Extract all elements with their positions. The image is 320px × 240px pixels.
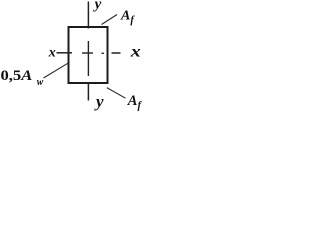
x axis centerline dash inside section [82, 52, 93, 54]
y axis centerline dash inside section [87, 41, 89, 76]
leader line to bottom flange label Af [107, 88, 126, 99]
x axis centerline dot [102, 52, 105, 54]
svg-text:0,5A: 0,5A [1, 68, 33, 84]
leader line to top flange label Af [102, 15, 118, 25]
x axis right segment [112, 52, 121, 54]
leader line to web label 0,5Aw [44, 63, 69, 78]
rectangle section outline [69, 27, 108, 83]
svg-text:w: w [37, 77, 44, 88]
svg-text:x: x [130, 43, 141, 60]
svg-text:x: x [48, 46, 56, 61]
x axis left segment [57, 52, 73, 54]
svg-text:y: y [94, 92, 104, 111]
y axis lower segment [87, 82, 89, 101]
y axis upper segment [87, 2, 89, 29]
svg-text:y: y [93, 0, 102, 12]
